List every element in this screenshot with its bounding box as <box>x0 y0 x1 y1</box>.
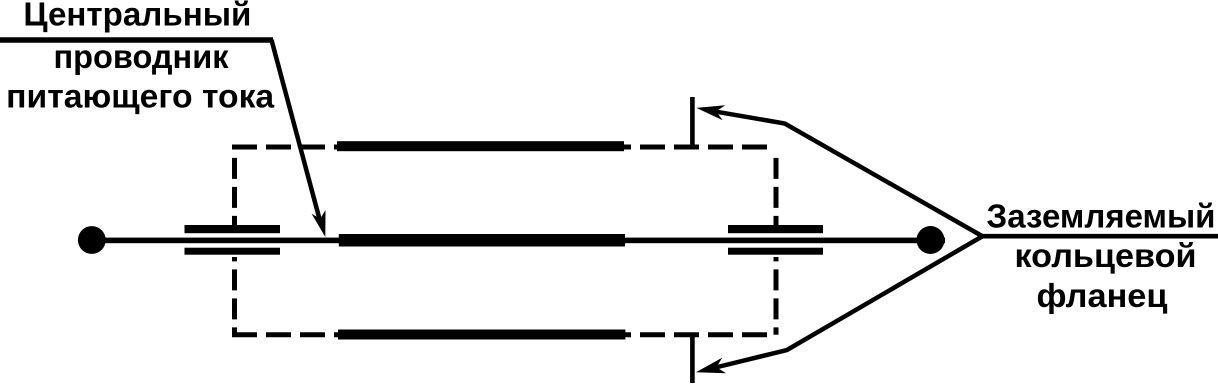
bottom ground tab <box>690 334 695 383</box>
arrowhead pointing at center conductor <box>312 210 326 237</box>
node: right terminal dot <box>917 226 945 254</box>
svg-text:проводник: проводник <box>54 38 229 75</box>
top electrode bar <box>337 141 624 151</box>
wire: leader line from flange label to bottom ground tab <box>714 237 983 369</box>
svg-text:питающего тока: питающего тока <box>6 78 275 115</box>
wire: leader line from flange label to top ground tab <box>714 111 982 236</box>
svg-text:Центральный: Центральный <box>23 0 251 33</box>
arrowhead pointing at top ground tab <box>696 105 725 120</box>
center conductor bar <box>339 234 625 247</box>
capacitor C-right top plate <box>728 225 823 233</box>
shield enclosure dashed outline: left edge lower segment <box>232 257 237 335</box>
svg-text:Заземляемый: Заземляемый <box>987 198 1216 235</box>
wire: central conductor feed line <box>92 238 945 244</box>
capacitor C-left bottom plate <box>185 248 281 255</box>
node: left terminal dot <box>78 226 106 254</box>
svg-text:фланец: фланец <box>1037 277 1168 314</box>
shield enclosure dashed outline: bottom edge <box>232 332 776 337</box>
wire: leader diagonal line to center conductor <box>272 40 321 222</box>
leader underline under "Центральный" <box>0 37 273 43</box>
capacitor C-right bottom plate <box>728 248 823 255</box>
svg-text:кольцевой: кольцевой <box>1015 237 1197 274</box>
top ground tab <box>690 97 695 147</box>
arrowhead pointing at bottom ground tab <box>696 358 726 374</box>
shield enclosure dashed outline: right edge lower segment <box>774 257 779 335</box>
bottom electrode bar <box>338 330 625 340</box>
shield enclosure dashed outline: top edge <box>232 145 776 150</box>
leader underline under "Заземляемый" <box>980 234 1218 239</box>
shield enclosure dashed outline: left edge upper segment <box>232 158 237 226</box>
shield enclosure dashed outline: right edge upper segment <box>774 158 779 226</box>
capacitor C-left top plate <box>185 225 281 233</box>
